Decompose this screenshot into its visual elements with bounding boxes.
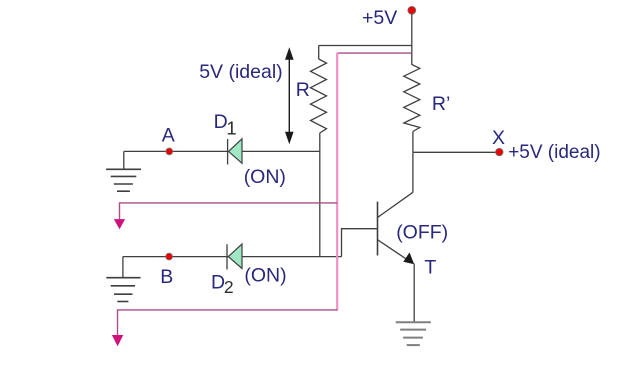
pink arrow at B branch: [112, 335, 123, 346]
node +5V supply dot: [408, 6, 416, 14]
svg-text:R’: R’: [432, 93, 450, 115]
wire R' bottom lead: [412, 132, 414, 153]
wire input A: [124, 150, 320, 152]
node X dot: [496, 148, 503, 155]
wire B node to transistor base: [342, 229, 378, 257]
resistor R: [311, 59, 327, 133]
wire node column (R bottom to B wire): [319, 133, 321, 257]
wire collector to X node: [412, 152, 414, 192]
wire pink vertical: [336, 53, 338, 311]
svg-text:2: 2: [224, 277, 234, 297]
svg-text:(ON): (ON): [244, 265, 286, 287]
wire pink lower branch to B input: [118, 310, 338, 336]
ground T: [396, 322, 431, 345]
ground A: [106, 151, 141, 191]
measure arrow 5V (ideal): [285, 47, 294, 144]
node A dot: [166, 148, 173, 155]
wire input B: [123, 256, 342, 258]
svg-text:+5V (ideal): +5V (ideal): [508, 142, 600, 163]
node B dot: [166, 253, 173, 260]
wire supply drop from +5V dot: [411, 14, 413, 46]
ground B: [106, 257, 140, 302]
svg-text:(OFF): (OFF): [396, 222, 448, 244]
svg-text:T: T: [424, 257, 436, 279]
resistor R': [404, 46, 420, 132]
wire R top lead: [318, 46, 320, 60]
svg-text:A: A: [162, 125, 175, 147]
svg-text:1: 1: [226, 117, 236, 138]
svg-text:X: X: [492, 127, 505, 149]
svg-text:(ON): (ON): [244, 166, 286, 188]
svg-text:+5V: +5V: [362, 7, 397, 29]
wire X output: [413, 151, 496, 153]
svg-text:5V (ideal): 5V (ideal): [199, 61, 282, 83]
wire pink feedback top segment: [337, 52, 411, 54]
wire pink upper branch to A input: [120, 203, 338, 220]
wire emitter to ground: [413, 264, 415, 323]
diode D2: [227, 244, 242, 270]
transistor T: [378, 192, 415, 264]
svg-text:B: B: [160, 266, 173, 288]
pink arrow at A branch: [114, 219, 125, 229]
diode D1: [228, 139, 242, 165]
svg-text:R: R: [296, 79, 310, 101]
wire top rail: [319, 45, 412, 47]
